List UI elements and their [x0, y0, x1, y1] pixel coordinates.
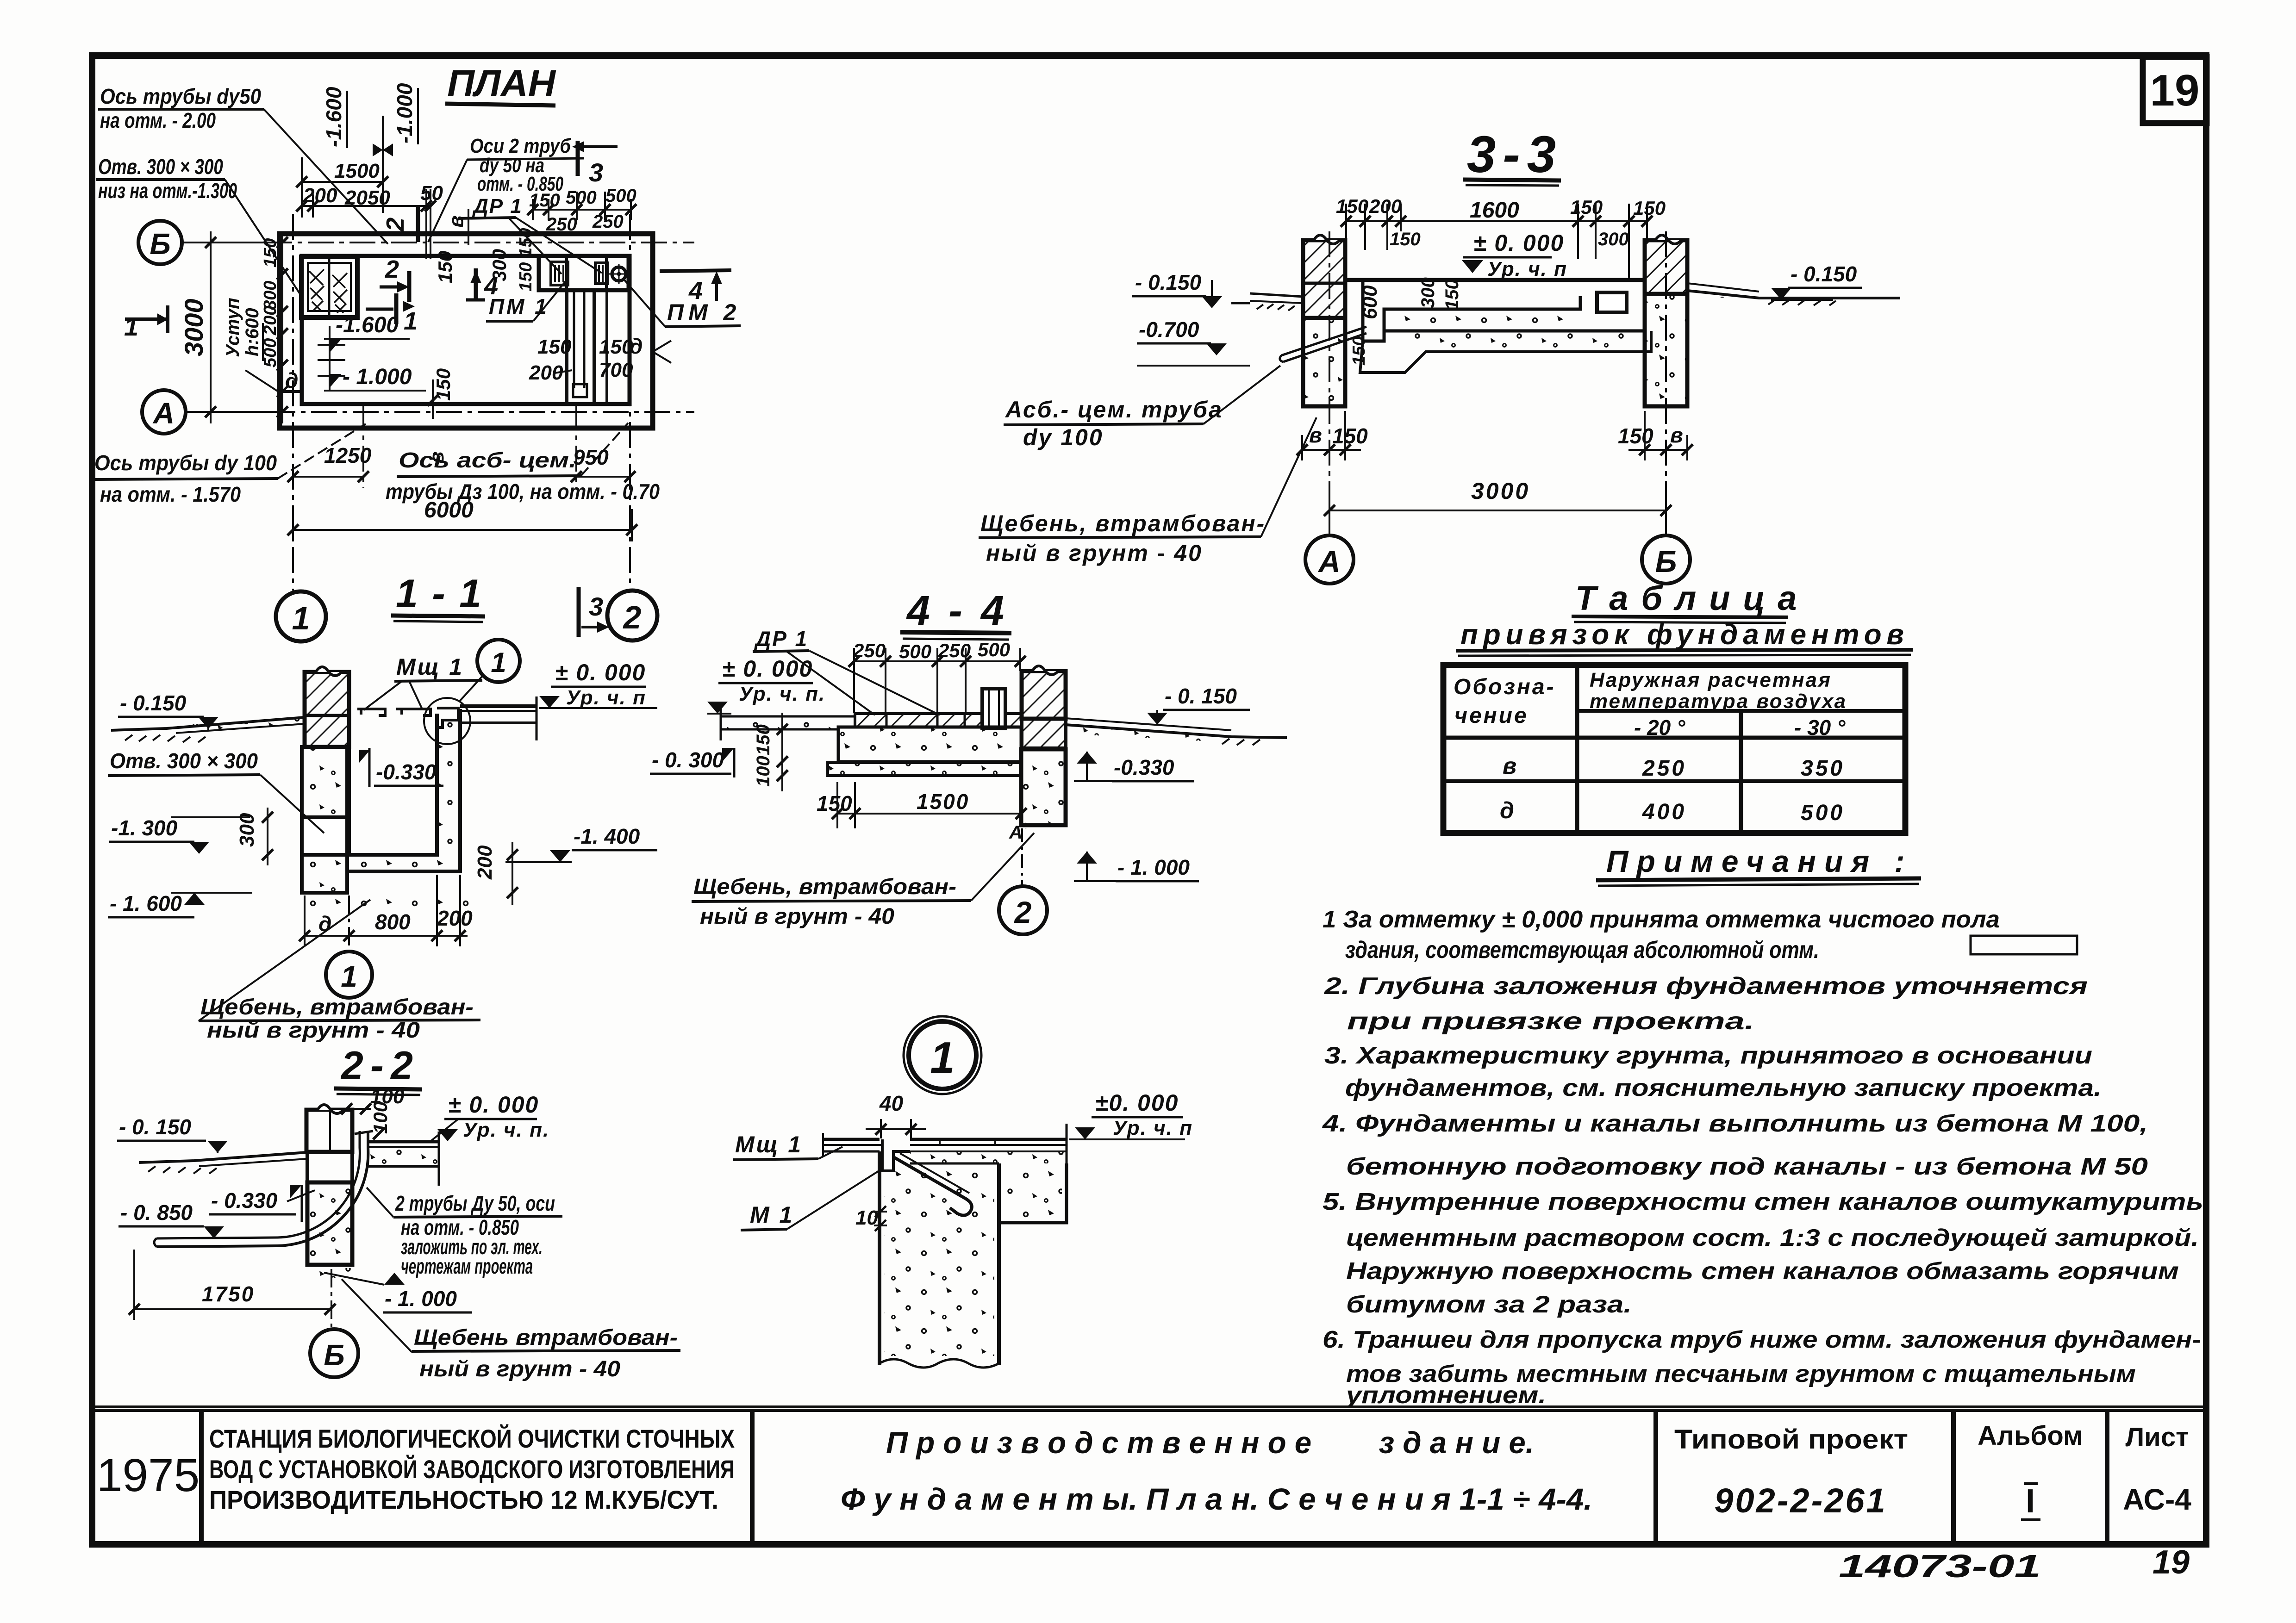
svg-text:А: А [1009, 822, 1023, 843]
svg-text:здания, соответствующая абсол: здания, соответствующая абсолютной отм. [1345, 937, 1819, 964]
svg-text:2. Глубина заложения фундаме: 2. Глубина заложения фундаментов уточняе… [1324, 973, 2088, 1000]
top right dim 150 500 500 250 250 [527, 192, 636, 220]
svg-text:ный в грунт - 40: ный в грунт - 40 [700, 904, 894, 929]
svg-text:Лист: Лист [2125, 1422, 2189, 1452]
1-1 blind area and ground left [111, 717, 305, 742]
svg-text:Щебень, втрамбован-: Щебень, втрамбован- [980, 510, 1266, 536]
svg-text:800: 800 [261, 281, 280, 310]
svg-text:-1.000: -1.000 [393, 83, 417, 143]
svg-text:250: 250 [938, 640, 971, 661]
svg-text:1: 1 [341, 960, 357, 993]
floor drain funnel circle in plan [609, 264, 629, 284]
svg-text:150: 150 [1349, 336, 1369, 366]
svg-text:50: 50 [420, 182, 443, 205]
svg-text:Наружная расчетная: Наружная расчетная [1590, 669, 1832, 691]
svg-text:цементным раствором сост.: цементным раствором сост. 1:3 с последую… [1346, 1225, 2199, 1251]
2-2 blind area and ground left [139, 1152, 306, 1174]
svg-text:14073-01: 14073-01 [1839, 1548, 2041, 1584]
svg-text:100: 100 [369, 1101, 391, 1134]
plan axis lines dash-dot [183, 214, 694, 591]
3-3 concrete dots under floor [1386, 311, 1581, 330]
top dim 200 2050 50 [296, 189, 436, 259]
3-3 asb-cement pipe diagonal [1280, 327, 1366, 362]
plan inner wall rectangle [302, 256, 630, 404]
svg-text:150: 150 [1336, 195, 1368, 217]
svg-text:2: 2 [623, 599, 642, 635]
svg-text:П Л А Н: П Л А Н [447, 62, 556, 105]
1-1 lower foundation block [302, 855, 347, 893]
svg-text:150: 150 [753, 724, 774, 755]
svg-text:ПРОИЗВОДИТЕЛЬНОСТЬЮ 12 М.КУБ: ПРОИЗВОДИТЕЛЬНОСТЬЮ 12 М.КУБ/СУТ. [209, 1485, 718, 1514]
3-3 right pier wall hatched [1645, 235, 1687, 406]
svg-text:400: 400 [1642, 800, 1686, 824]
svg-text:бетонную подготовку под к: бетонную подготовку под каналы - из бето… [1346, 1153, 2148, 1180]
svg-text:±0. 000: ±0. 000 [1095, 1090, 1179, 1116]
svg-text:700: 700 [599, 359, 633, 381]
svg-text:д: д [1500, 797, 1514, 823]
svg-text:Ось трубы dу50: Ось трубы dу50 [100, 84, 261, 108]
1-1 channel U concrete [349, 709, 460, 871]
4-4 pipe sleeve block [982, 689, 1005, 728]
svg-text:Уступ: Уступ [223, 298, 243, 357]
svg-text:3: 3 [589, 592, 603, 621]
plan pit box top-left with diagonal hatch [301, 257, 357, 317]
svg-text:800: 800 [375, 910, 411, 934]
drain grate 1 in plan [551, 262, 568, 285]
svg-text:500: 500 [605, 186, 636, 206]
svg-text:6000: 6000 [424, 498, 474, 522]
svg-text:500: 500 [566, 187, 597, 208]
svg-text:3: 3 [589, 158, 603, 187]
svg-text:Б: Б [1655, 544, 1677, 578]
svg-text:3000: 3000 [179, 298, 208, 356]
3-3 axis dashdot lines [1329, 231, 1666, 535]
svg-text:150: 150 [1570, 196, 1603, 218]
svg-text:2: 2 [385, 255, 399, 283]
svg-text:Отв. 300 × 300: Отв. 300 × 300 [110, 749, 258, 773]
svg-text:1500: 1500 [334, 160, 380, 182]
svg-text:СТАНЦИЯ БИОЛОГИЧЕСКОЙ ОЧИСТК: СТАНЦИЯ БИОЛОГИЧЕСКОЙ ОЧИСТКИ СТОЧНЫХ [209, 1424, 735, 1453]
svg-text:на отм. - 1.570: на отм. - 1.570 [100, 482, 241, 506]
svg-text:1500: 1500 [917, 790, 969, 814]
1-1 floor slab right [460, 696, 537, 740]
svg-text:-1. 300: -1. 300 [111, 816, 178, 840]
svg-text:- 0. 850: - 0. 850 [120, 1200, 193, 1225]
svg-text:150: 150 [537, 336, 572, 358]
svg-text:950: 950 [573, 445, 609, 469]
svg-text:- 20 °: - 20 ° [1634, 715, 1685, 740]
svg-text:± 0. 000: ± 0. 000 [555, 659, 646, 685]
svg-text:Б: Б [150, 227, 170, 261]
1-1 opening 300x300 block [302, 817, 347, 855]
svg-text:ПМ 2: ПМ 2 [667, 299, 741, 325]
3-3 opening in floor near right pier [1597, 292, 1627, 312]
axis circle 2 [607, 591, 657, 640]
3-3 axis circle A [1305, 535, 1354, 584]
svg-text:Ф у н д а м е н т ы. П л а н.: Ф у н д а м е н т ы. П л а н. С е ч е н … [841, 1482, 1592, 1516]
svg-text:Щебень, втрамбован-: Щебень, втрамбован- [200, 995, 474, 1020]
section mark 4 right with PM2 label [660, 270, 731, 271]
svg-text:в: в [1503, 753, 1516, 779]
svg-text:150: 150 [1633, 197, 1666, 219]
svg-text:500: 500 [978, 639, 1010, 660]
plan outer wall rectangle [280, 234, 653, 428]
svg-text:- 1. 000: - 1. 000 [385, 1287, 457, 1311]
svg-text:500: 500 [899, 640, 931, 662]
svg-text:П р о и з в о д с т в е н н о: П р о и з в о д с т в е н н о е з д а н … [886, 1425, 1534, 1460]
svg-text:1: 1 [292, 600, 310, 636]
2-2 floor slab right of pipe [368, 1132, 439, 1186]
section mark 3 top [576, 141, 580, 176]
svg-text:200: 200 [303, 184, 337, 207]
top dim 1500 with level flags [296, 116, 388, 213]
svg-text:4. Фундаменты и каналы выпо: 4. Фундаменты и каналы выполнить из бето… [1322, 1110, 2148, 1137]
svg-text:в: в [1309, 423, 1322, 447]
svg-text:Отв. 300 × 300: Отв. 300 × 300 [98, 155, 223, 179]
svg-text:2050: 2050 [344, 187, 390, 209]
svg-text:- 0. 150: - 0. 150 [1165, 684, 1237, 708]
detail concrete pier [880, 1151, 999, 1368]
2-2 wall below ground block [307, 1152, 352, 1182]
svg-text:уплотнением.: уплотнением. [1345, 1382, 1546, 1409]
2-2 axis circle B [331, 1269, 332, 1328]
svg-text:150: 150 [261, 238, 280, 267]
svg-text:Мщ 1: Мщ 1 [735, 1132, 803, 1157]
title block outer [92, 1407, 2206, 1544]
svg-text:ный в грунт - 40: ный в грунт - 40 [419, 1357, 620, 1381]
svg-text:Ур. ч. п.: Ур. ч. п. [739, 683, 825, 705]
svg-text:200: 200 [474, 845, 496, 880]
svg-text:1: 1 [124, 312, 138, 341]
svg-text:Щебень, втрамбован-: Щебень, втрамбован- [693, 875, 956, 899]
svg-text:± 0. 000: ± 0. 000 [448, 1092, 539, 1118]
svg-text:ДР 1: ДР 1 [472, 195, 523, 218]
svg-text:dу 100: dу 100 [1023, 424, 1104, 450]
svg-text:300: 300 [1418, 277, 1438, 308]
svg-text:1975: 1975 [97, 1449, 200, 1501]
section mark 3 bottom [577, 587, 581, 637]
2-2 foundation block [307, 1182, 352, 1265]
note 1 empty box [1971, 936, 2077, 954]
4-4 top dim chain 250 500 250 500 [849, 648, 1026, 713]
svg-text:- 1. 000: - 1. 000 [1117, 855, 1190, 879]
svg-text:1750: 1750 [202, 1282, 255, 1306]
svg-text:ный в грунт - 40: ный в грунт - 40 [986, 540, 1203, 566]
3-3 right pier foundation concrete [1645, 294, 1687, 406]
svg-text:150: 150 [599, 336, 633, 358]
svg-text:1 - 1: 1 - 1 [396, 572, 481, 616]
svg-text:-0.700: -0.700 [1139, 317, 1199, 342]
1-1 level -0.330 [359, 750, 370, 763]
svg-text:Асб.- цем. труба: Асб.- цем. труба [1004, 397, 1223, 423]
detail floor plates [823, 1124, 1067, 1166]
svg-text:АС-4: АС-4 [2123, 1483, 2191, 1516]
step notch in left wall [280, 390, 302, 393]
svg-text:Ур. ч. п: Ур. ч. п [1487, 258, 1567, 280]
svg-text:4 - 4: 4 - 4 [906, 588, 1004, 634]
svg-text:Ур. ч. п: Ур. ч. п [566, 686, 646, 709]
3-3 floor line [1345, 278, 1645, 282]
plan vertical channel to pit [567, 290, 607, 404]
plan channel assembly top-right box [539, 256, 629, 290]
svg-text:I: I [2026, 1483, 2035, 1520]
svg-text:Типовой проект: Типовой проект [1674, 1424, 1908, 1455]
4-4 blind area and ground right [1066, 718, 1287, 745]
svg-text:в: в [425, 451, 448, 464]
svg-text:- 0. 300: - 0. 300 [652, 748, 724, 772]
detail right concrete block [999, 1163, 1067, 1223]
svg-text:300: 300 [236, 813, 258, 847]
svg-text:Щебень втрамбован-: Щебень втрамбован- [414, 1325, 678, 1350]
svg-text:фундаментов, см. пояснительну: фундаментов, см. пояснительную записку п… [1345, 1075, 2102, 1101]
svg-text:на отм. - 2.00: на отм. - 2.00 [100, 108, 216, 132]
axis circle Б [138, 221, 182, 264]
svg-text:100: 100 [753, 756, 774, 787]
drain grate 2 in plan [595, 263, 607, 284]
svg-text:низ на отм.-1.300: низ на отм.-1.300 [98, 179, 237, 203]
svg-text:-1.600: -1.600 [336, 313, 399, 337]
svg-text:3. Характеристику грунта, пр: 3. Характеристику грунта, принятого в ос… [1324, 1042, 2092, 1069]
svg-text:150 150: 150 150 [516, 228, 536, 292]
svg-text:А: А [152, 397, 175, 430]
svg-text:- 0.150: - 0.150 [1791, 262, 1857, 286]
1-1 detail ref circle 1 [477, 640, 520, 682]
table of foundation offsets [1443, 665, 1905, 833]
svg-text:1600: 1600 [1470, 198, 1519, 223]
svg-text:М 1: М 1 [750, 1202, 794, 1228]
svg-text:150: 150 [817, 791, 852, 815]
2-2 wall above ground [306, 1105, 352, 1182]
svg-text:ДР 1: ДР 1 [754, 627, 808, 651]
1-1 detail circle thin [424, 698, 470, 744]
3-3 axis circle B [1642, 535, 1690, 584]
svg-text:ПМ 1: ПМ 1 [489, 294, 549, 318]
svg-text:250: 250 [592, 211, 624, 232]
1-1 wall hatched above ground [305, 667, 349, 747]
1-1 channel covers MSh1 [357, 708, 458, 728]
svg-text:Примечания :: Примечания : [1606, 844, 1913, 878]
svg-text:2: 2 [1014, 895, 1032, 929]
2-2 pipe elbow 2x d50 [154, 1131, 373, 1247]
3-3 top dimension chain [1341, 204, 1653, 278]
svg-text:1 За отметку ± 0,000 принят: 1 За отметку ± 0,000 принята отметка чис… [1323, 906, 2000, 933]
svg-text:при привязке проекта.: при привязке проекта. [1347, 1008, 1754, 1035]
svg-text:2 - 2: 2 - 2 [340, 1044, 413, 1088]
plan left dimension chain 3000 [185, 231, 288, 423]
axis circle 1 [276, 591, 326, 641]
svg-text:Б: Б [324, 1338, 344, 1372]
svg-text:-1.600: -1.600 [322, 87, 346, 147]
svg-text:1: 1 [404, 307, 418, 335]
svg-text:Ур. ч. п.: Ур. ч. п. [463, 1119, 549, 1141]
svg-text:300: 300 [1598, 229, 1629, 249]
3-3 ground line right with blind area [1687, 283, 1900, 305]
detail 1 reference circle [904, 1016, 981, 1094]
svg-text:А: А [1317, 544, 1341, 578]
svg-text:-0.330: -0.330 [376, 760, 437, 784]
axis circle А [142, 390, 186, 434]
svg-text:Альбом: Альбом [1978, 1421, 2083, 1451]
4-4 drain channel DR1 hatched strip [855, 714, 1021, 727]
svg-text:40: 40 [879, 1091, 904, 1115]
4-4 floor line left [721, 707, 855, 740]
svg-text:Ур. ч. п: Ур. ч. п [1113, 1117, 1193, 1139]
svg-text:д: д [285, 368, 298, 392]
svg-text:температура воздуха: температура воздуха [1590, 690, 1847, 713]
arrow at right wall d [653, 341, 671, 363]
svg-text:3 - 3: 3 - 3 [1467, 125, 1556, 183]
svg-text:Таблица: Таблица [1575, 579, 1809, 617]
1-1 foundation block with dots [302, 747, 347, 817]
svg-text:5. Внутренние поверхности с: 5. Внутренние поверхности стен каналов о… [1323, 1188, 2203, 1215]
svg-text:чение: чение [1454, 703, 1529, 728]
svg-text:1: 1 [491, 647, 506, 678]
svg-text:± 0. 000: ± 0. 000 [1473, 230, 1564, 256]
svg-text:- 0.150: - 0.150 [1135, 270, 1202, 294]
3-3 left pier wall hatched [1303, 235, 1345, 406]
3-3 left pier foundation concrete [1303, 318, 1345, 406]
svg-text:Обозна-: Обозна- [1454, 675, 1556, 699]
svg-text:150: 150 [1390, 229, 1421, 249]
svg-text:150: 150 [1442, 279, 1462, 310]
svg-text:250: 250 [1642, 756, 1686, 781]
svg-text:± 0. 000: ± 0. 000 [722, 656, 813, 682]
svg-text:2 трубы Ду 50, оси: 2 трубы Ду 50, оси [395, 1191, 555, 1215]
svg-text:чертежам проекта: чертежам проекта [401, 1254, 533, 1278]
3-3 ground line left with blind area [1231, 293, 1303, 311]
detail anchor slot and M1 angle [882, 1139, 972, 1215]
sheet number box 19 top right [2143, 57, 2207, 123]
1-1 axis circle 1 bottom [348, 895, 350, 951]
svg-text:Ось трубы dу 100: Ось трубы dу 100 [94, 451, 277, 475]
svg-text:в: в [1670, 423, 1683, 447]
svg-text:6. Траншеи для пропуска тру: 6. Траншеи для пропуска труб ниже отм. з… [1323, 1326, 2201, 1353]
svg-text:19: 19 [2150, 66, 2200, 115]
svg-text:ВОД С УСТАНОВКОЙ ЗАВОДСКОГО И: ВОД С УСТАНОВКОЙ ЗАВОДСКОГО ИЗГОТОВЛЕНИЯ [209, 1455, 735, 1484]
svg-text:200: 200 [1369, 195, 1402, 217]
svg-text:150: 150 [434, 251, 456, 283]
svg-text:350: 350 [1801, 756, 1845, 781]
svg-text:h:600: h:600 [242, 308, 262, 357]
svg-text:- 0.150: - 0.150 [120, 691, 187, 715]
svg-text:- 1.000: - 1.000 [343, 365, 412, 389]
svg-text:300: 300 [488, 249, 510, 281]
svg-text:- 0.330: - 0.330 [211, 1188, 278, 1213]
section mark 1 left [125, 305, 168, 333]
3-3 pit under floor [1360, 280, 1651, 373]
svg-text:д: д [630, 334, 643, 358]
section cut 1 inside plan [366, 308, 393, 311]
svg-text:-1. 400: -1. 400 [574, 824, 640, 848]
svg-text:902-2-261: 902-2-261 [1714, 1481, 1887, 1520]
1-1 gravel under foundation dots [302, 895, 473, 908]
svg-text:2: 2 [381, 218, 409, 232]
svg-text:1: 1 [930, 1033, 955, 1082]
4-4 right wall hatched [1022, 666, 1066, 748]
svg-text:1250: 1250 [324, 443, 372, 467]
svg-text:битумом за 2 раза.: битумом за 2 раза. [1346, 1291, 1632, 1318]
svg-text:250: 250 [853, 640, 886, 661]
svg-text:600: 600 [1359, 285, 1381, 319]
svg-text:200: 200 [437, 906, 473, 930]
4-4 concrete bed [828, 727, 1021, 776]
svg-text:500: 500 [1801, 801, 1845, 825]
svg-text:-0.330: -0.330 [1114, 755, 1174, 779]
svg-text:Наружную поверхность стен ка: Наружную поверхность стен каналов обмаза… [1346, 1258, 2179, 1285]
svg-text:3000: 3000 [1471, 478, 1530, 504]
svg-text:- 0. 150: - 0. 150 [119, 1115, 191, 1139]
section cut 2 top [416, 207, 420, 242]
svg-text:привязок фундаментов: привязок фундаментов [1460, 619, 1904, 651]
4-4 foundation below wall [1021, 749, 1066, 825]
svg-text:Мщ 1: Мщ 1 [396, 654, 464, 680]
svg-text:- 1. 600: - 1. 600 [110, 891, 182, 915]
section cut 4 inside plan [474, 268, 478, 300]
svg-text:150: 150 [529, 190, 560, 211]
svg-text:- 30 °: - 30 ° [1794, 715, 1846, 740]
svg-text:250: 250 [546, 214, 577, 235]
svg-text:19: 19 [2152, 1544, 2190, 1581]
